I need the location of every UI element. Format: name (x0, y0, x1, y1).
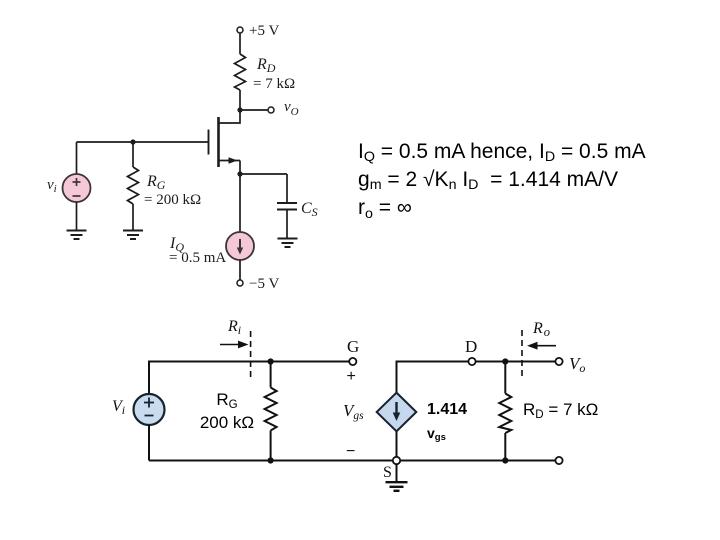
label CS (301, 200, 318, 219)
marker Ro arrow (527, 342, 556, 350)
svg-text:S: S (383, 464, 392, 481)
svg-text:RG: RG (146, 173, 166, 192)
wire IQ to -5V terminal (239, 260, 241, 280)
label minus (vgs) (346, 443, 355, 460)
label S (383, 464, 392, 481)
resistor RG (small-signal) (265, 362, 277, 461)
ground (RG) (123, 231, 143, 240)
svg-text:Ro: Ro (532, 320, 550, 339)
node RD top junction (502, 358, 508, 364)
svg-text:+: + (347, 368, 356, 385)
wire S to bottom-right terminal (400, 460, 555, 462)
wire gate node to vi (77, 142, 134, 174)
svg-text:= 0.5 mA: = 0.5 mA (169, 250, 226, 266)
svg-text:= 200 kΩ: = 200 kΩ (144, 192, 201, 208)
transistor Q1 gate bar (208, 130, 210, 155)
wire RD to drain node (239, 90, 241, 110)
label RG value (small-signal) (196, 388, 258, 434)
transistor Q1 drain lead (220, 110, 241, 123)
label RD (256, 56, 276, 75)
label G (347, 337, 359, 356)
wire diamond top to D (397, 362, 469, 393)
svg-text:vi: vi (47, 177, 57, 195)
ground (vi) (67, 231, 87, 240)
label IQ (169, 235, 184, 254)
label Vgs (343, 401, 364, 422)
transistor Q1 source lead with arrow (220, 157, 241, 174)
svg-text:CS: CS (301, 200, 318, 219)
resistor RG (128, 142, 139, 230)
svg-text:vO: vO (284, 99, 299, 118)
wire vi to ground (76, 202, 78, 230)
label +5 V (249, 23, 279, 39)
node RG top junction (268, 358, 274, 364)
node RG bottom junction (268, 457, 274, 463)
svg-text:Vgs: Vgs (343, 401, 364, 422)
label vi (47, 177, 57, 195)
wire +5V to RD (239, 33, 241, 54)
wire bottom: Vi to S (149, 460, 393, 462)
terminal S (393, 457, 400, 464)
wire source node to CS (240, 174, 287, 203)
wire gate lead (133, 141, 209, 143)
terminal +5V (237, 27, 243, 33)
marker Ri arrow (220, 341, 249, 349)
wire source node to IQ (239, 174, 241, 232)
svg-text:G: G (347, 337, 359, 356)
ground (CS) (278, 239, 298, 248)
label 1.414 vgs (controlled source value) (427, 398, 467, 445)
svg-text:RD: RD (256, 56, 276, 75)
terminal bottom right (555, 457, 562, 464)
node source junction (237, 171, 242, 176)
label -5 V (249, 276, 279, 292)
label = 0.5 mA (169, 250, 226, 266)
label vO (284, 99, 299, 118)
transistor Q1 channel bar (217, 117, 220, 167)
current source IQ (226, 232, 254, 260)
wire Vi bottom (148, 425, 150, 461)
terminal G (349, 358, 356, 365)
svg-text:= 7 kΩ: = 7 kΩ (253, 76, 295, 92)
label + (vgs) (347, 368, 356, 385)
svg-text:Ri: Ri (227, 318, 241, 337)
wire diamond bottom to S (396, 431, 398, 456)
label = 200 kOhm (144, 192, 201, 208)
wire D to RD junction (476, 361, 506, 363)
terminal vO (268, 107, 274, 113)
label = 7 kOhm (253, 76, 295, 92)
wire node to vO terminal (240, 109, 268, 111)
source vi (63, 174, 91, 202)
svg-text:Vo: Vo (569, 354, 585, 375)
label Vo (569, 354, 585, 375)
label Ri (227, 318, 241, 337)
terminal -5V (237, 280, 243, 286)
node drain junction (237, 107, 242, 112)
svg-text:+5 V: +5 V (249, 23, 279, 39)
terminal D (468, 358, 475, 365)
resistor RD (235, 54, 246, 90)
capacitor CS (277, 203, 297, 238)
svg-text:D: D (465, 337, 477, 356)
resistor RD (small-signal) (499, 362, 511, 461)
controlled source 1.414vgs (diamond) (377, 393, 417, 432)
marker Ro dashed boundary (521, 330, 523, 380)
wire RD junction to Vo terminal (505, 361, 555, 363)
ground (S) (386, 482, 408, 491)
label Ro (532, 320, 550, 339)
marker Ri dashed boundary (250, 331, 252, 378)
label RG (146, 173, 166, 192)
terminal Vo (555, 358, 562, 365)
node gate junction (130, 139, 135, 144)
label D (465, 337, 477, 356)
svg-text:−5 V: −5 V (249, 276, 279, 292)
text block: gm calculation (358, 138, 646, 223)
svg-text:Vi: Vi (112, 398, 125, 417)
svg-text:−: − (346, 443, 355, 460)
node RD bottom junction (502, 457, 508, 463)
source Vi (134, 394, 165, 425)
wire top: Vi to G terminal (149, 362, 349, 395)
label Vi (112, 398, 125, 417)
wire S to ground (396, 464, 398, 482)
label RD value (small-signal) (523, 400, 598, 420)
